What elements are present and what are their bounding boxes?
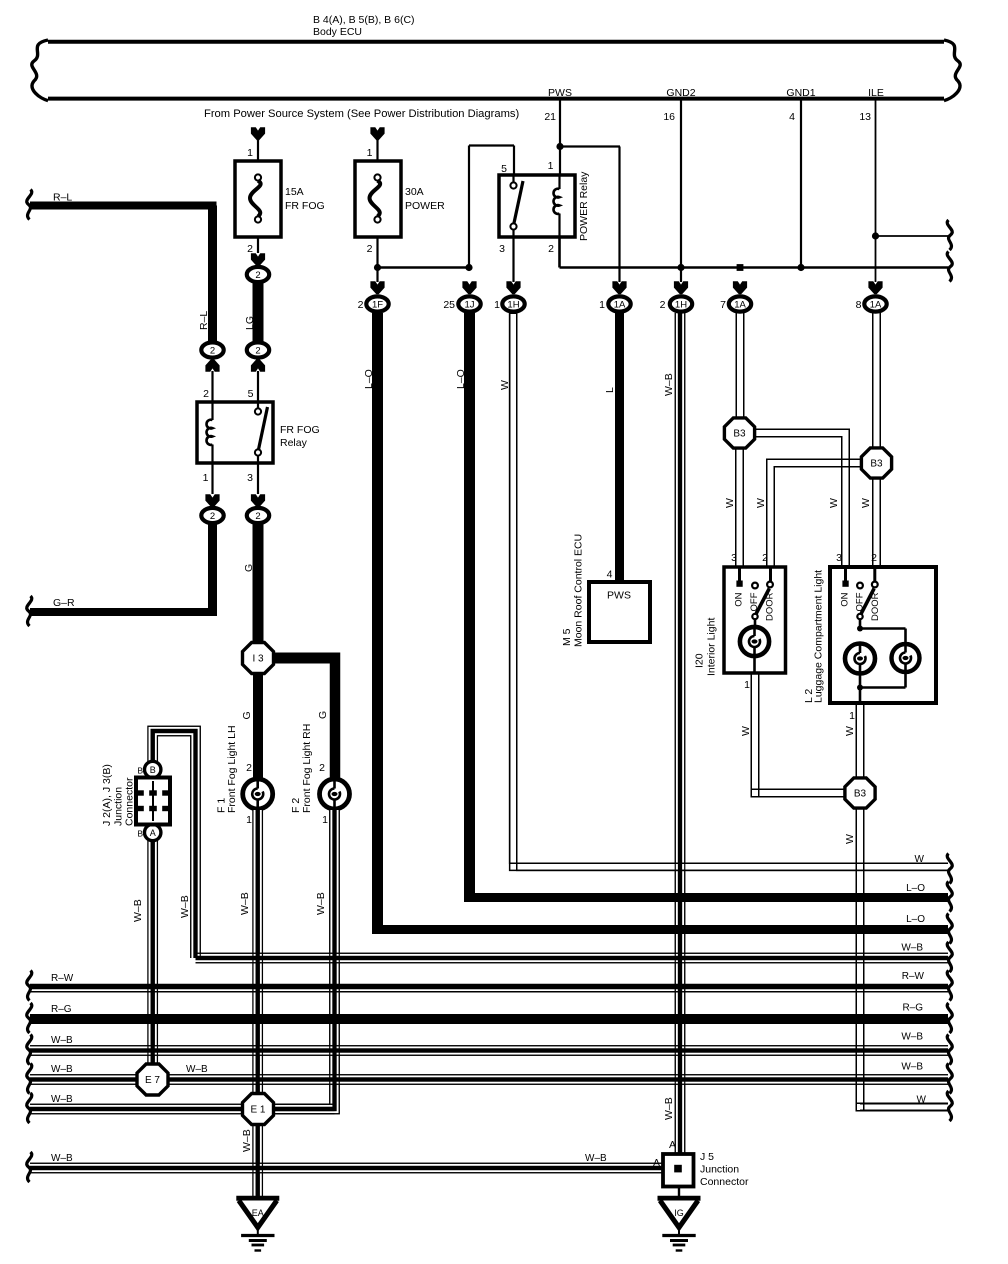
svg-text:G–R: G–R <box>53 597 75 609</box>
svg-text:OFF: OFF <box>749 592 760 611</box>
svg-text:Junction: Junction <box>700 1164 739 1176</box>
svg-text:B3: B3 <box>870 459 883 470</box>
svg-text:B3: B3 <box>733 429 746 440</box>
svg-text:2: 2 <box>762 552 768 564</box>
svg-text:1H: 1H <box>507 299 519 310</box>
svg-text:PWS: PWS <box>548 87 572 99</box>
svg-text:2: 2 <box>255 345 260 356</box>
svg-text:B: B <box>137 829 143 839</box>
svg-text:B 4(A), B 5(B), B 6(C): B 4(A), B 5(B), B 6(C) <box>313 14 415 26</box>
svg-text:LG: LG <box>244 316 256 330</box>
svg-text:W–B: W–B <box>186 1064 208 1075</box>
svg-text:2: 2 <box>660 299 666 311</box>
svg-text:2: 2 <box>246 762 252 774</box>
svg-text:EA: EA <box>252 1208 264 1218</box>
svg-text:1: 1 <box>744 679 750 691</box>
svg-text:13: 13 <box>859 111 871 123</box>
svg-text:R–G: R–G <box>51 1004 72 1015</box>
svg-text:15A: 15A <box>285 186 304 198</box>
svg-text:PWS: PWS <box>607 590 631 602</box>
svg-text:E 7: E 7 <box>145 1075 160 1086</box>
svg-text:1J: 1J <box>464 299 474 310</box>
svg-text:W: W <box>844 726 856 736</box>
svg-text:16: 16 <box>663 111 675 123</box>
svg-text:A: A <box>150 828 156 838</box>
svg-text:21: 21 <box>544 111 556 123</box>
svg-text:IG: IG <box>674 1208 684 1218</box>
svg-text:5: 5 <box>501 163 507 175</box>
svg-text:1: 1 <box>548 160 554 172</box>
svg-text:2: 2 <box>255 270 260 281</box>
svg-text:W–B: W–B <box>663 373 675 396</box>
svg-text:OFF: OFF <box>855 592 866 611</box>
svg-text:L–O: L–O <box>906 883 925 894</box>
svg-text:ILE: ILE <box>868 87 884 99</box>
svg-text:W–B: W–B <box>51 1035 73 1046</box>
svg-text:G: G <box>243 564 255 572</box>
svg-text:1: 1 <box>322 814 328 826</box>
svg-text:A: A <box>669 1139 676 1151</box>
svg-text:Interior Light: Interior Light <box>706 618 718 676</box>
svg-text:4: 4 <box>607 569 613 581</box>
svg-text:2: 2 <box>319 762 325 774</box>
svg-text:3: 3 <box>499 243 505 255</box>
svg-text:W–B: W–B <box>239 892 251 915</box>
svg-text:2: 2 <box>210 345 215 356</box>
svg-text:Moon Roof Control ECU: Moon Roof Control ECU <box>573 534 585 647</box>
svg-text:L: L <box>604 387 616 393</box>
svg-text:From Power Source System (See: From Power Source System (See Power Dist… <box>204 108 519 120</box>
svg-text:1F: 1F <box>372 299 383 310</box>
svg-text:1A: 1A <box>734 299 746 310</box>
svg-text:Connector: Connector <box>700 1176 749 1188</box>
svg-text:R–W: R–W <box>51 973 74 984</box>
svg-text:GND1: GND1 <box>786 87 815 99</box>
svg-text:L–O: L–O <box>363 369 375 389</box>
svg-text:2: 2 <box>548 243 554 255</box>
svg-text:1: 1 <box>367 147 373 159</box>
svg-text:W–B: W–B <box>315 892 327 915</box>
svg-text:2: 2 <box>871 552 877 564</box>
svg-text:2: 2 <box>358 299 364 311</box>
svg-text:Luggage Compartment Light: Luggage Compartment Light <box>813 570 825 703</box>
svg-text:1H: 1H <box>675 299 687 310</box>
svg-text:FR FOG: FR FOG <box>280 424 320 436</box>
svg-text:W–B: W–B <box>663 1097 675 1120</box>
svg-text:J 5: J 5 <box>700 1151 714 1163</box>
svg-text:1: 1 <box>849 710 855 722</box>
svg-text:2: 2 <box>203 388 209 400</box>
svg-text:R–G: R–G <box>902 1003 923 1014</box>
svg-text:B3: B3 <box>854 789 867 800</box>
svg-text:L–O: L–O <box>455 369 467 389</box>
svg-text:W: W <box>724 498 736 508</box>
svg-text:4: 4 <box>789 111 795 123</box>
svg-text:POWER Relay: POWER Relay <box>578 171 590 241</box>
svg-text:R–L: R–L <box>198 311 210 330</box>
svg-text:W: W <box>755 498 767 508</box>
svg-text:Body ECU: Body ECU <box>313 26 362 38</box>
svg-text:FR FOG: FR FOG <box>285 200 325 212</box>
svg-text:2: 2 <box>210 511 215 522</box>
svg-text:E 1: E 1 <box>250 1105 265 1116</box>
svg-text:GND2: GND2 <box>666 87 695 99</box>
svg-text:3: 3 <box>836 552 842 564</box>
svg-text:Connector: Connector <box>124 777 136 826</box>
svg-text:W–B: W–B <box>901 943 923 954</box>
svg-text:L–O: L–O <box>906 914 925 925</box>
svg-text:J 2(A), J 3(B): J 2(A), J 3(B) <box>101 764 113 826</box>
svg-text:W–B: W–B <box>241 1129 253 1152</box>
svg-text:W–B: W–B <box>585 1153 607 1164</box>
svg-text:I 3: I 3 <box>252 654 264 665</box>
svg-text:1: 1 <box>246 814 252 826</box>
svg-text:R–W: R–W <box>902 971 925 982</box>
svg-text:30A: 30A <box>405 186 424 198</box>
svg-text:B: B <box>150 765 156 775</box>
svg-text:W–B: W–B <box>51 1094 73 1105</box>
svg-text:3: 3 <box>247 472 253 484</box>
svg-text:B: B <box>137 766 143 776</box>
svg-text:Front Fog Light RH: Front Fog Light RH <box>301 724 313 813</box>
svg-text:1: 1 <box>203 472 209 484</box>
svg-text:ON: ON <box>840 592 851 606</box>
svg-text:Relay: Relay <box>280 437 308 449</box>
svg-text:POWER: POWER <box>405 200 445 212</box>
svg-text:W: W <box>860 498 872 508</box>
svg-text:W–B: W–B <box>51 1064 73 1075</box>
svg-text:1A: 1A <box>614 299 626 310</box>
svg-text:G: G <box>241 711 253 719</box>
svg-text:7: 7 <box>720 299 726 311</box>
svg-text:R–L: R–L <box>53 192 72 204</box>
svg-text:M 5: M 5 <box>561 628 573 646</box>
svg-text:1: 1 <box>599 299 605 311</box>
svg-text:I20: I20 <box>694 653 706 668</box>
svg-text:W–B: W–B <box>901 1032 923 1043</box>
svg-text:DOOR: DOOR <box>870 592 881 621</box>
svg-text:1A: 1A <box>870 299 882 310</box>
svg-text:G: G <box>317 711 329 719</box>
svg-text:W–B: W–B <box>179 895 191 918</box>
svg-text:1: 1 <box>247 147 253 159</box>
svg-text:A: A <box>653 1157 660 1169</box>
svg-text:2: 2 <box>367 243 373 255</box>
svg-text:DOOR: DOOR <box>765 592 776 621</box>
svg-text:W–B: W–B <box>51 1153 73 1164</box>
svg-text:Front Fog Light LH: Front Fog Light LH <box>226 725 238 813</box>
svg-text:W–B: W–B <box>901 1062 923 1073</box>
svg-text:25: 25 <box>443 299 455 311</box>
svg-text:2: 2 <box>255 511 260 522</box>
svg-text:1: 1 <box>494 299 500 311</box>
svg-text:5: 5 <box>248 388 254 400</box>
svg-text:ON: ON <box>734 592 745 606</box>
svg-text:W–B: W–B <box>132 899 144 922</box>
svg-text:W: W <box>844 834 856 844</box>
svg-text:3: 3 <box>731 552 737 564</box>
svg-text:8: 8 <box>856 299 862 311</box>
svg-text:W: W <box>740 726 752 736</box>
svg-text:W: W <box>828 498 840 508</box>
